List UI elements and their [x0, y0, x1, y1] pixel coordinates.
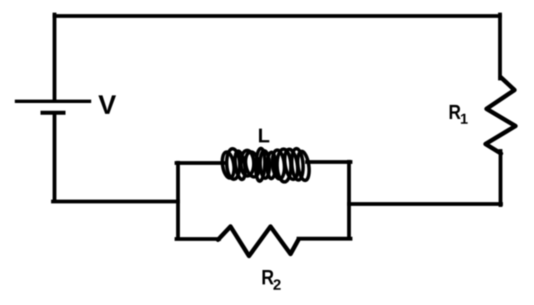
wire right vertical lower	[499, 151, 503, 205]
inductor L coil	[221, 148, 311, 182]
label V	[98, 95, 116, 114]
wire right vertical upper	[498, 15, 502, 79]
label R2	[262, 270, 280, 290]
wire top	[55, 14, 501, 18]
wire bottom left horizontal	[53, 200, 178, 204]
label L	[259, 129, 269, 143]
wire top branch left	[177, 161, 226, 165]
resistor R2 zigzag	[218, 227, 299, 257]
wire battery bottom lead	[53, 115, 57, 202]
label R1	[450, 105, 468, 124]
wire bottom branch right	[299, 237, 351, 241]
wire bottom branch left	[177, 237, 220, 241]
node left junction of parallel section	[176, 163, 180, 239]
wire left vertical (battery top lead)	[53, 15, 57, 101]
resistor R1 zigzag	[486, 77, 516, 154]
battery V short plate	[43, 111, 64, 115]
battery V (source) long plate	[17, 100, 90, 103]
wire middle right horizontal	[349, 202, 501, 206]
node right junction of parallel section	[347, 162, 351, 238]
wire top branch right	[307, 160, 351, 164]
